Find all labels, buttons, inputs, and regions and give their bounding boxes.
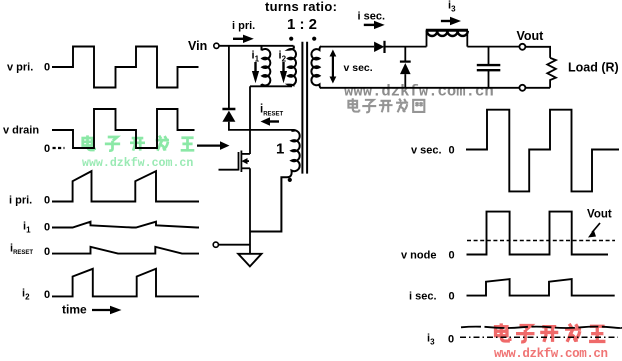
svg-text:v drain: v drain <box>3 125 39 137</box>
svg-text:www.dzkfw.com.cn: www.dzkfw.com.cn <box>82 157 193 170</box>
svg-text:i sec.: i sec. <box>358 11 386 23</box>
svg-text:0: 0 <box>44 62 50 74</box>
svg-text:0: 0 <box>44 289 50 301</box>
svg-text:0: 0 <box>449 250 455 262</box>
svg-text:turns ratio:: turns ratio: <box>265 0 337 14</box>
svg-text:www.dzkfw.com.cn: www.dzkfw.com.cn <box>494 347 608 361</box>
svg-text:Vin: Vin <box>188 39 207 53</box>
svg-text:Load (R): Load (R) <box>568 61 619 75</box>
svg-text:time: time <box>62 303 87 317</box>
svg-text:0: 0 <box>44 195 50 207</box>
svg-text:i pri.: i pri. <box>9 195 32 207</box>
svg-text:i pri.: i pri. <box>232 20 255 32</box>
svg-text:Vout: Vout <box>517 29 545 43</box>
svg-text:1 : 2: 1 : 2 <box>287 16 317 33</box>
svg-text:1: 1 <box>276 141 284 158</box>
svg-text:www.dzkfw.com.cn: www.dzkfw.com.cn <box>344 83 494 101</box>
svg-text:0: 0 <box>448 334 454 346</box>
svg-text:0: 0 <box>44 143 50 155</box>
svg-text:i sec.: i sec. <box>409 291 437 303</box>
svg-text:v pri.: v pri. <box>7 62 33 74</box>
svg-text:0: 0 <box>44 246 50 258</box>
svg-text:v sec.: v sec. <box>344 62 373 74</box>
svg-text:v sec.: v sec. <box>411 145 442 157</box>
svg-text:0: 0 <box>44 222 50 234</box>
svg-text:0: 0 <box>449 291 455 303</box>
svg-text:0: 0 <box>449 145 455 157</box>
svg-text:v node: v node <box>401 250 436 262</box>
svg-text:Vout: Vout <box>587 209 612 221</box>
